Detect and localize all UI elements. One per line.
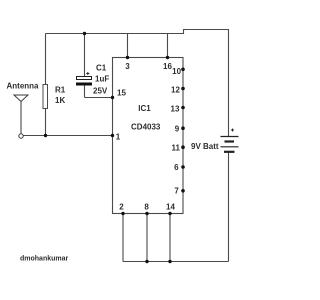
- svg-text:13: 13: [171, 105, 180, 114]
- svg-text:Antenna: Antenna: [7, 82, 40, 91]
- svg-text:dmohankumar: dmohankumar: [20, 256, 69, 263]
- svg-text:CD4033: CD4033: [131, 123, 161, 132]
- svg-text:3: 3: [125, 62, 130, 71]
- svg-text:6: 6: [174, 163, 179, 172]
- svg-text:16: 16: [163, 62, 172, 71]
- svg-text:1: 1: [116, 133, 121, 142]
- svg-text:11: 11: [171, 143, 180, 152]
- svg-text:1K: 1K: [55, 96, 65, 105]
- svg-text:9V Batt: 9V Batt: [191, 142, 219, 151]
- svg-text:2: 2: [119, 203, 124, 212]
- svg-text:1uF: 1uF: [95, 75, 109, 84]
- svg-text:R1: R1: [55, 86, 66, 95]
- svg-text:7: 7: [174, 187, 179, 196]
- svg-text:C1: C1: [96, 63, 107, 72]
- svg-text:25V: 25V: [93, 86, 108, 95]
- svg-text:IC1: IC1: [138, 104, 151, 113]
- svg-text:15: 15: [117, 89, 126, 98]
- svg-text:14: 14: [166, 203, 175, 212]
- svg-text:8: 8: [144, 203, 149, 212]
- svg-text:10: 10: [172, 67, 181, 76]
- svg-text:12: 12: [171, 86, 180, 95]
- svg-text:9: 9: [175, 124, 180, 133]
